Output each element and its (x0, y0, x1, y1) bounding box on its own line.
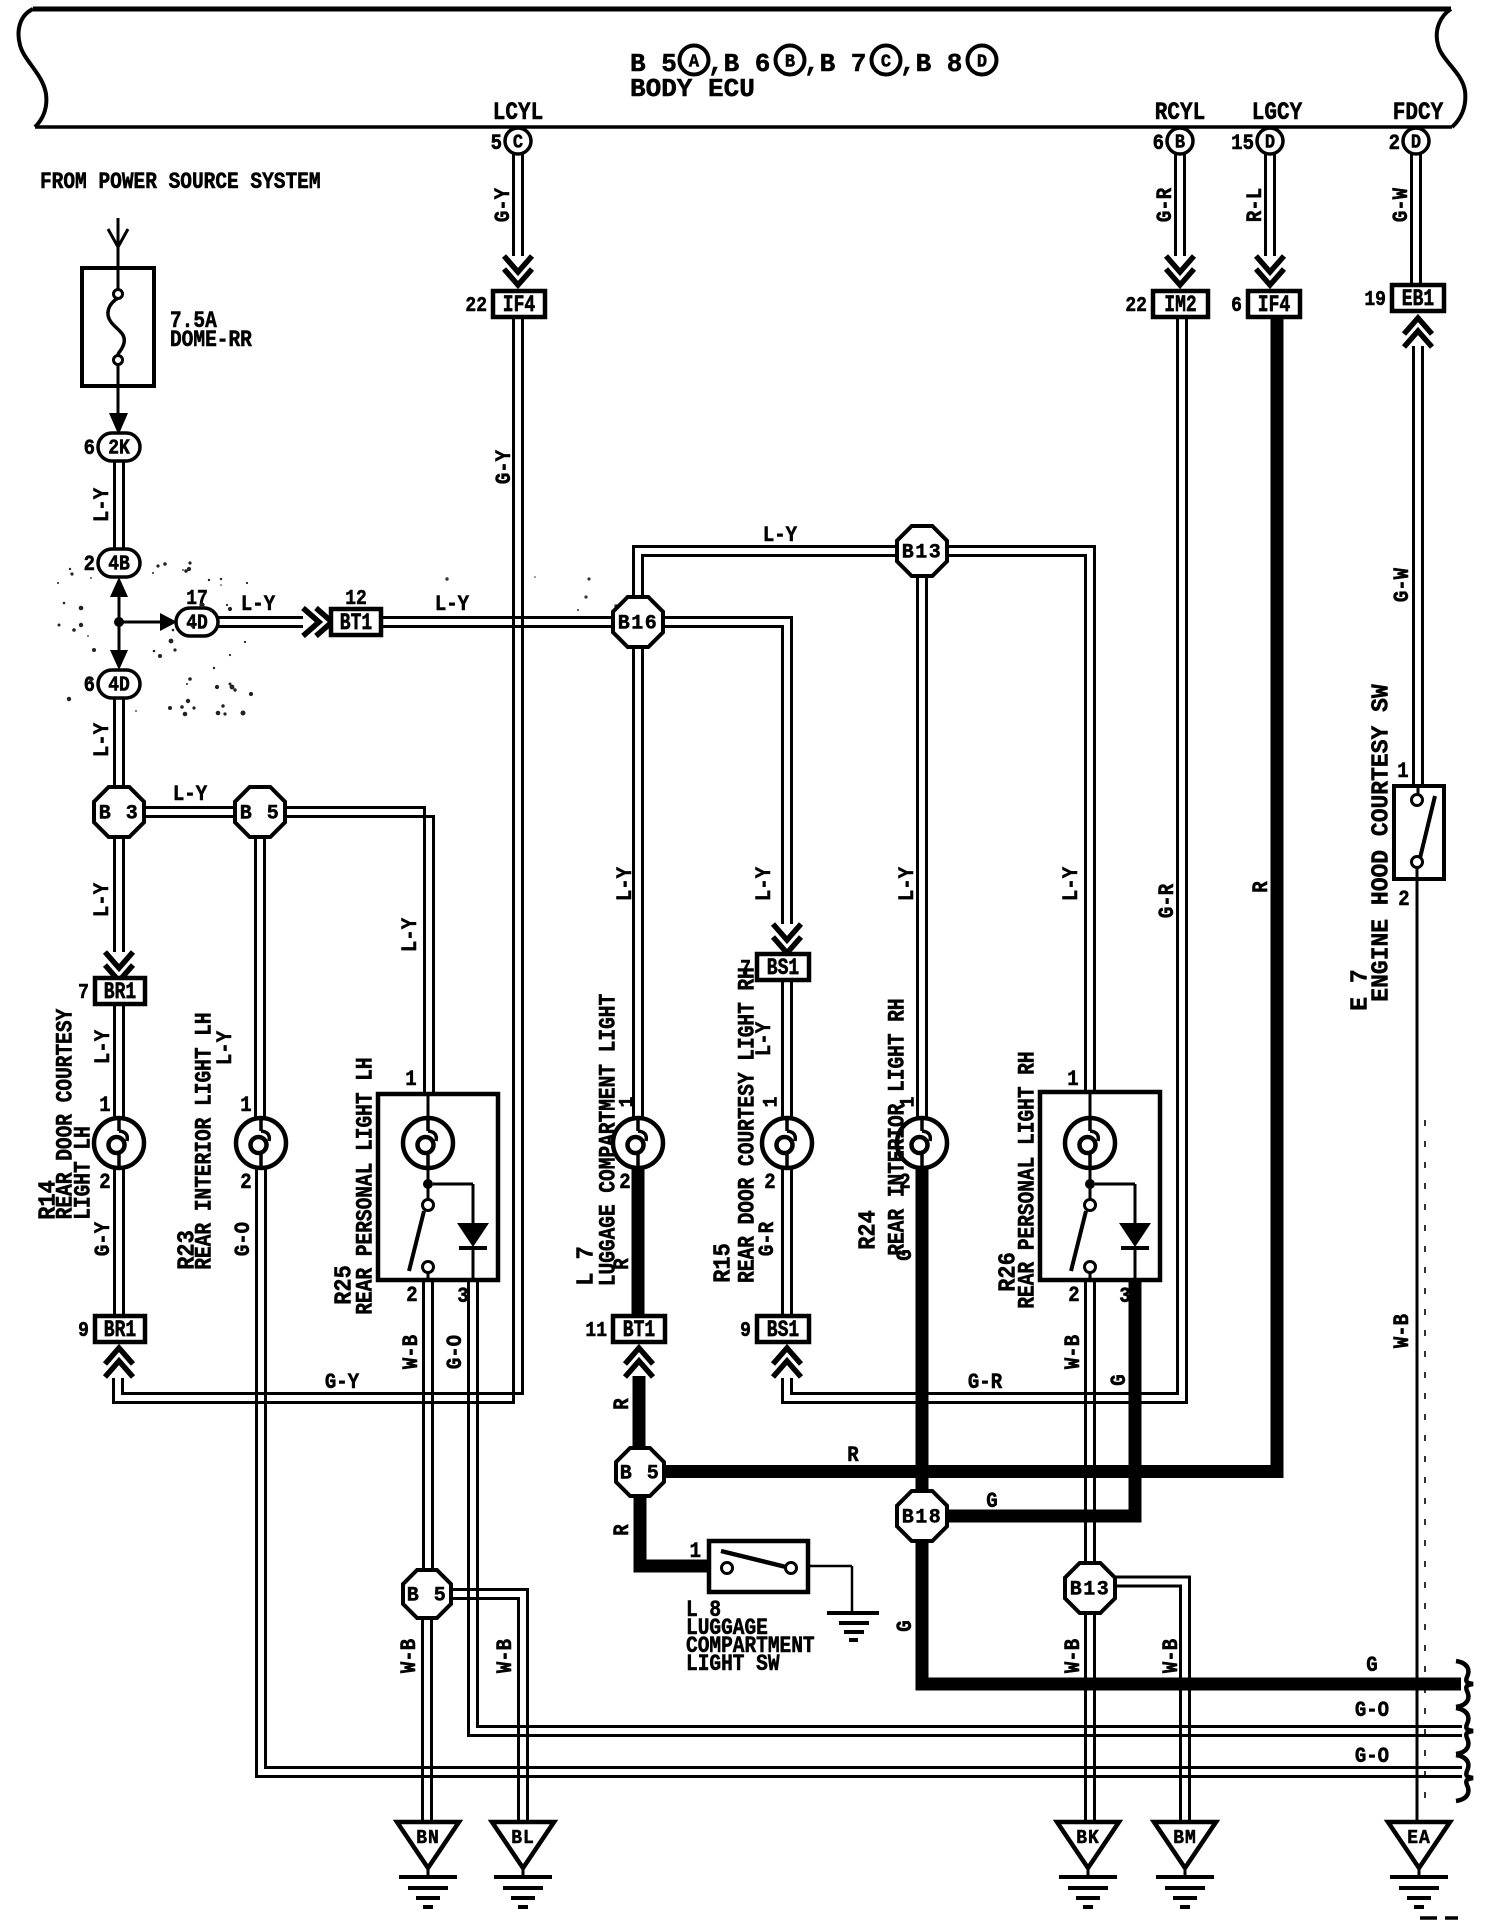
svg-text:B13: B13 (902, 541, 942, 564)
connector 9 BR1 (95, 1316, 145, 1342)
splice B16 (613, 597, 663, 647)
svg-text:1: 1 (99, 1094, 110, 1119)
svg-text:1: 1 (690, 1540, 701, 1565)
svg-text:4B: 4B (108, 551, 130, 576)
ground BN (397, 1822, 459, 1868)
svg-text:1: 1 (405, 1068, 416, 1093)
svg-text:BT1: BT1 (340, 611, 372, 637)
wire W-B B5 to BL ground (451, 1590, 528, 1823)
connector 22 IF4 (493, 291, 545, 317)
svg-text:17: 17 (186, 586, 208, 611)
splice B13 (897, 526, 947, 576)
svg-text:W-B: W-B (1062, 1335, 1087, 1369)
svg-text:W-B: W-B (1062, 1639, 1087, 1673)
connector 7 BS1 (757, 954, 809, 980)
svg-text:L-Y: L-Y (91, 487, 116, 522)
svg-text:FDCY: FDCY (1393, 98, 1443, 126)
svg-text:G-Y: G-Y (492, 187, 517, 222)
svg-text:REAR INTERIOR LIGHT RH: REAR INTERIOR LIGHT RH (885, 998, 911, 1255)
svg-text:G-O: G-O (444, 1335, 469, 1369)
continuation brace G-O upper (1456, 1708, 1473, 1754)
connector 6 4D (98, 670, 140, 698)
svg-text:BR1: BR1 (104, 980, 136, 1006)
svg-text:B: B (785, 52, 795, 73)
page edge dashes (1420, 1916, 1437, 1920)
connector 6 IF4 (1248, 291, 1300, 317)
svg-text:B 3: B 3 (99, 802, 139, 825)
svg-text:G-Y: G-Y (325, 1371, 360, 1396)
svg-text:L-Y: L-Y (896, 866, 921, 901)
wire R-L from LGCY (1264, 154, 1267, 256)
wire W-B B5 to BN ground (421, 1617, 424, 1822)
arrow into BR1 7 (105, 952, 133, 968)
wire R thick B5 right (664, 1465, 1283, 1478)
svg-text:L-Y: L-Y (241, 593, 276, 618)
svg-text:C: C (513, 133, 523, 154)
svg-text:EB1: EB1 (1402, 287, 1434, 313)
svg-text:LGCY: LGCY (1252, 98, 1302, 126)
wire G thick B18 down right (922, 1540, 1461, 1684)
arrow into BS1 7 (773, 924, 801, 940)
splice B13 lower (1065, 1563, 1115, 1613)
svg-text:R: R (611, 1398, 636, 1410)
svg-text:15: 15 (1231, 132, 1254, 157)
svg-text:11: 11 (585, 1318, 607, 1343)
diode R25 (433, 1183, 473, 1186)
svg-text:B: B (1175, 133, 1185, 154)
wire L-Y B16 top to B13 (634, 547, 898, 599)
switch R25 (427, 1168, 430, 1200)
wire L-Y B13 down to R24 (916, 576, 919, 1118)
svg-text:B13: B13 (1070, 1578, 1110, 1601)
splice B5 (235, 787, 285, 837)
wire L-Y B5 to R25 pin1 (285, 808, 425, 1095)
wire L-Y B3 down (113, 837, 116, 952)
wire L-Y B5 down to R23 (254, 837, 257, 1118)
switch E7 engine hood courtesy (1394, 786, 1444, 879)
svg-text:4D: 4D (108, 672, 130, 697)
svg-text:6: 6 (1231, 293, 1242, 318)
lamp unit R26 rear personal light RH (1040, 1092, 1160, 1280)
arrow out of EB1 (1404, 318, 1432, 334)
diode R26 (1095, 1183, 1135, 1186)
svg-text:R15: R15 (709, 1243, 736, 1283)
continuation brace G-O lower (1456, 1755, 1473, 1801)
wire G-Y from LCYL (512, 154, 515, 256)
svg-text:19: 19 (1364, 287, 1386, 312)
bulb R26 (1089, 1092, 1092, 1118)
svg-text:BS1: BS1 (767, 1318, 799, 1344)
svg-text:4D: 4D (186, 610, 208, 635)
svg-text:2: 2 (1398, 888, 1409, 913)
svg-text:DOME-RR: DOME-RR (170, 328, 252, 354)
svg-text:A: A (689, 52, 699, 73)
connector 7 BR1 (95, 978, 145, 1004)
svg-text:G-Y: G-Y (92, 1221, 117, 1256)
svg-text:BK: BK (1076, 1826, 1100, 1849)
arrow into BT1 (303, 608, 319, 636)
svg-text:3: 3 (457, 1285, 468, 1310)
splice B5 mid (616, 1448, 664, 1496)
branch wire to 4D 17 (119, 621, 162, 624)
ground EA (1388, 1822, 1450, 1868)
splice B5 lower (403, 1570, 451, 1618)
svg-text:1: 1 (240, 1094, 251, 1119)
svg-text:B16: B16 (618, 612, 658, 635)
svg-text:2: 2 (84, 553, 95, 578)
svg-text:G-O: G-O (1355, 1699, 1389, 1724)
svg-text:D: D (1265, 133, 1275, 154)
svg-text:G-W: G-W (1390, 187, 1415, 222)
svg-text:W-B: W-B (1160, 1639, 1185, 1673)
svg-text:BR1: BR1 (104, 1318, 136, 1344)
svg-text:W-B: W-B (398, 1639, 423, 1673)
svg-text:22: 22 (465, 293, 487, 318)
bulb R14 rear door courtesy light LH (94, 1118, 144, 1168)
wire L-Y B16 to BS1 (663, 618, 792, 925)
svg-text:1: 1 (1397, 760, 1408, 785)
svg-text:W-B: W-B (1391, 1314, 1416, 1348)
svg-text:W-B: W-B (494, 1639, 519, 1673)
splice B3 (94, 787, 144, 837)
svg-text:LIGHT LH: LIGHT LH (71, 1126, 97, 1220)
bulb R15 rear door courtesy light RH (762, 1118, 812, 1168)
svg-text:G: G (986, 1490, 997, 1515)
bulb R25 (427, 1094, 430, 1118)
svg-text:9: 9 (78, 1318, 89, 1343)
wire W-B B13 to BM ground (1114, 1577, 1190, 1822)
ground BK (1057, 1822, 1119, 1868)
connector 17 4D (176, 608, 218, 636)
arrow into IM2 (1166, 256, 1194, 272)
svg-text:W-B: W-B (400, 1335, 425, 1369)
connector 11 BT1 (613, 1316, 665, 1342)
svg-text:L-Y: L-Y (753, 866, 778, 901)
wire L-Y BS1 to R15 (781, 980, 784, 1118)
svg-text:BT1: BT1 (623, 1318, 655, 1344)
wire L-Y BR1 to R14 (113, 1004, 116, 1118)
scan noise speckles (184, 569, 188, 573)
bulb R24 rear interior light RH (897, 1118, 947, 1168)
body ECU connector band (33, 7, 1451, 12)
wire fuse to 2K with arrow (117, 386, 120, 415)
svg-text:RCYL: RCYL (1155, 98, 1205, 126)
svg-text:G-R: G-R (968, 1371, 1003, 1396)
wire L-Y B16 down to L7 (632, 647, 635, 1118)
connector 22 IM2 (1153, 291, 1208, 317)
svg-text:ENGINE HOOD COURTESY SW: ENGINE HOOD COURTESY SW (1368, 683, 1396, 1001)
continuation brace G (1456, 1661, 1473, 1707)
wire G thick B18 to R26 pin3 (946, 1280, 1135, 1516)
svg-text:L-Y: L-Y (435, 593, 470, 618)
connector 12 BT1 (331, 609, 381, 635)
svg-text:2: 2 (1389, 132, 1400, 157)
svg-text:C: C (881, 52, 891, 73)
svg-text:L-Y: L-Y (91, 722, 116, 757)
svg-text:7: 7 (78, 980, 89, 1005)
svg-text:REAR INTERIOR LIGHT LH: REAR INTERIOR LIGHT LH (192, 1012, 218, 1269)
svg-text:G: G (894, 1620, 919, 1631)
svg-text:G: G (1108, 1374, 1133, 1385)
svg-text:L-Y: L-Y (763, 524, 798, 549)
arrow out of BR1 9 (105, 1348, 133, 1364)
svg-text:L-Y: L-Y (399, 917, 424, 952)
splice B18 (897, 1491, 947, 1541)
wire G-W EB1 to E7 (1412, 346, 1415, 786)
svg-text:G-O: G-O (232, 1222, 257, 1256)
arrow out of BT1 11 (625, 1348, 653, 1364)
ground BL (492, 1822, 554, 1868)
svg-text:R24: R24 (854, 1210, 881, 1250)
svg-text:G-W: G-W (1391, 567, 1416, 602)
wire R thick B5 to L8 (640, 1495, 711, 1566)
wire W-B B13 to BK ground (1084, 1612, 1087, 1822)
wire L-Y 4D to BT1 (218, 616, 303, 619)
svg-text:5: 5 (491, 132, 502, 157)
connector 6 2K (98, 433, 140, 461)
svg-text:FROM POWER SOURCE SYSTEM: FROM POWER SOURCE SYSTEM (40, 170, 321, 196)
svg-text:G-O: G-O (1355, 1745, 1389, 1770)
svg-text:2K: 2K (108, 435, 130, 460)
svg-text:2: 2 (764, 1171, 775, 1196)
svg-text:L-Y: L-Y (173, 783, 208, 808)
svg-text:1: 1 (1067, 1068, 1078, 1093)
svg-text:REAR DOOR COURTESY LIGHT RH: REAR DOOR COURTESY LIGHT RH (735, 967, 761, 1283)
svg-text:B 5: B 5 (407, 1584, 447, 1607)
wire L-Y BT1 to B16 (381, 616, 614, 619)
svg-text:6: 6 (84, 674, 95, 699)
wire G-R R15 to BS1 9 (781, 1168, 784, 1316)
junction node (114, 617, 124, 627)
wire R thick BT1 to B5 mid (633, 1376, 646, 1450)
wire G-R from RCYL (1174, 154, 1177, 256)
svg-text:L-Y: L-Y (1060, 866, 1085, 901)
svg-text:12: 12 (345, 586, 367, 611)
svg-text:BS1: BS1 (767, 956, 799, 982)
svg-text:B18: B18 (902, 1506, 942, 1529)
svg-text:6: 6 (1153, 132, 1164, 157)
ground BM (1154, 1822, 1216, 1868)
arrow out of BS1 9 (773, 1348, 801, 1364)
wire G-W from FDCY (1410, 154, 1413, 285)
svg-text:R: R (611, 1524, 636, 1536)
svg-text:LCYL: LCYL (493, 98, 543, 126)
svg-text:,B 8: ,B 8 (900, 49, 962, 79)
wire W-B R26 to B13 (1084, 1280, 1087, 1564)
svg-text:G: G (1366, 1654, 1377, 1679)
svg-text:,B 7: ,B 7 (804, 49, 866, 79)
svg-text:1: 1 (759, 1097, 782, 1108)
svg-text:B 5: B 5 (240, 802, 280, 825)
svg-text:BM: BM (1173, 1826, 1197, 1849)
svg-text:2: 2 (99, 1171, 110, 1196)
svg-text:REAR PERSONAL LIGHT LH: REAR PERSONAL LIGHT LH (353, 1057, 379, 1314)
svg-text:6: 6 (84, 437, 95, 462)
svg-text:BN: BN (416, 1826, 440, 1849)
svg-text:BL: BL (511, 1826, 535, 1849)
wire L-Y 2K to 4B (113, 461, 116, 549)
svg-text:B 5: B 5 (620, 1462, 660, 1485)
svg-text:LIGHT SW: LIGHT SW (686, 1652, 780, 1678)
fuse 7.5A DOME-RR (82, 268, 154, 386)
svg-text:9: 9 (740, 1318, 751, 1343)
feed wire with arrow (117, 218, 120, 268)
svg-text:REAR PERSONAL LIGHT RH: REAR PERSONAL LIGHT RH (1015, 1051, 1041, 1308)
svg-text:R: R (847, 1444, 859, 1469)
ground symbol at L8 (827, 1611, 879, 1615)
svg-text:L-Y: L-Y (91, 882, 116, 917)
connector 2 4B (98, 549, 140, 577)
svg-text:IF4: IF4 (503, 293, 535, 319)
svg-text:BODY ECU: BODY ECU (630, 74, 755, 104)
wire R thick L7 to BT1 (632, 1168, 645, 1316)
svg-text:R-L: R-L (1244, 188, 1269, 222)
wire W-B R25 to B5 (422, 1280, 425, 1571)
svg-text:22: 22 (1125, 293, 1147, 318)
svg-text:D: D (1411, 133, 1421, 154)
arrow into IF4 LGCY (1256, 256, 1284, 272)
wire W-B E7 to EA ground (1416, 879, 1419, 1822)
svg-text:IM2: IM2 (1164, 293, 1196, 319)
svg-text:D: D (977, 52, 987, 73)
lamp unit R25 rear personal light LH (378, 1094, 498, 1280)
arrow up into 4B (110, 577, 128, 597)
svg-text:L-Y: L-Y (614, 866, 639, 901)
svg-text:G-R: G-R (1154, 187, 1179, 222)
svg-text:L-Y: L-Y (92, 1029, 117, 1064)
wire G-O R25 pin3 down (469, 1280, 1463, 1736)
wire L-Y B3 to B5 (144, 806, 235, 809)
wire junction to 4D 6 (118, 622, 121, 650)
svg-text:LUGGAGE COMPARTMENT LIGHT: LUGGAGE COMPARTMENT LIGHT (596, 994, 622, 1287)
svg-text:2: 2 (240, 1171, 251, 1196)
switch R26 (1089, 1168, 1092, 1200)
svg-text:2: 2 (1068, 1284, 1079, 1309)
wire L-Y 4D to B3 (113, 698, 116, 788)
svg-text:3: 3 (1119, 1285, 1130, 1310)
svg-text:EA: EA (1407, 1826, 1431, 1849)
wire L-Y B13 to R26 pin1 (947, 547, 1095, 1093)
connector 9 BS1 (757, 1316, 809, 1342)
bulb L7 luggage compartment light (613, 1118, 663, 1168)
connector 19 EB1 (1392, 285, 1444, 311)
switch L8 luggage compartment light sw (709, 1541, 808, 1592)
arrow into IF4 (504, 256, 532, 272)
wire L8 to ground (808, 1565, 852, 1568)
wire G thick R24 to B18 (916, 1168, 929, 1492)
svg-text:2: 2 (406, 1284, 417, 1309)
svg-text:IF4: IF4 (1258, 293, 1290, 319)
